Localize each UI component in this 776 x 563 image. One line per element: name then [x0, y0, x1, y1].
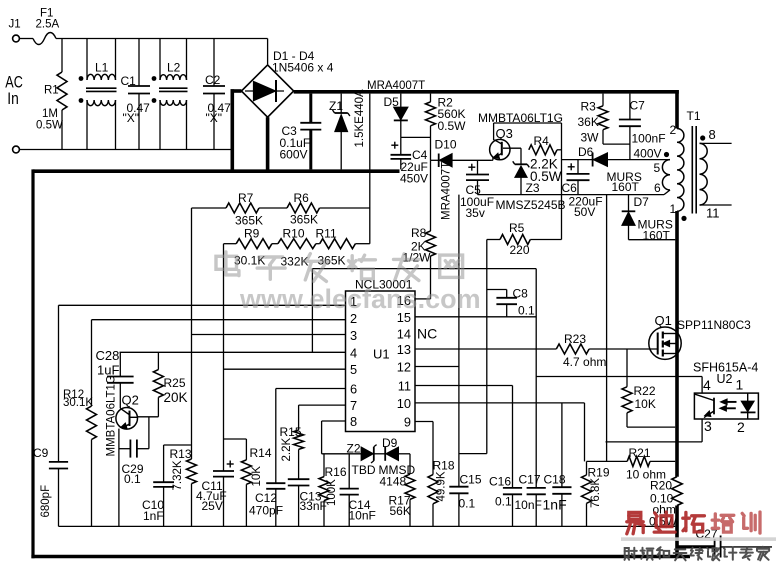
svg-text:In: In	[7, 90, 18, 108]
svg-text:5: 5	[654, 161, 661, 175]
svg-text:NC: NC	[417, 326, 437, 342]
svg-text:2: 2	[737, 419, 745, 435]
svg-text:4.7 ohm: 4.7 ohm	[563, 355, 606, 369]
resistor R5	[487, 239, 500, 241]
wire R2 down to R8	[430, 160, 432, 231]
svg-text:4148: 4148	[380, 475, 407, 489]
inductor L2 common-mode choke	[160, 75, 187, 80]
wire R5 left drop to C8 and C15	[486, 240, 488, 454]
svg-text:8: 8	[350, 414, 357, 429]
svg-text:1/2W: 1/2W	[403, 251, 432, 265]
capacitor C11 electrolytic	[223, 244, 225, 471]
resistor R11	[316, 243, 320, 245]
resistor R25	[157, 352, 159, 369]
transformer T1 secondary winding	[700, 143, 708, 205]
svg-text:36K: 36K	[578, 115, 599, 129]
svg-text:C1: C1	[121, 74, 137, 88]
svg-text:1nF: 1nF	[143, 509, 164, 523]
resistor R21	[587, 460, 628, 462]
svg-text:6: 6	[654, 181, 661, 195]
transistor Q3 MMBTA06LT1G	[490, 139, 510, 159]
svg-text:3W: 3W	[581, 131, 600, 145]
capacitor C3	[309, 94, 312, 123]
wire pin 10 drop to R21	[584, 403, 586, 462]
resistor R2	[430, 94, 432, 102]
wire divider feed from B+	[369, 94, 371, 244]
svg-text:30.1K: 30.1K	[63, 397, 93, 409]
resistor R12	[91, 320, 93, 406]
resistor R6	[259, 207, 287, 209]
svg-text:365K: 365K	[290, 213, 318, 227]
wire pin 1 net	[59, 304, 346, 306]
svg-text:2.5A: 2.5A	[36, 19, 60, 31]
wire secondary pin 11 output	[700, 204, 732, 206]
capacitor C6 electrolytic	[577, 160, 579, 174]
svg-text:C17: C17	[519, 473, 541, 487]
svg-text:0.1: 0.1	[495, 495, 512, 509]
resistor R22	[626, 349, 628, 387]
wire Q2 collector to R25	[138, 416, 159, 418]
svg-text:Z2: Z2	[347, 442, 361, 456]
wire bottom AC rail	[19, 149, 230, 151]
wire Q3 collector top	[494, 122, 562, 124]
svg-text:C6: C6	[562, 181, 578, 195]
svg-text:7.32K: 7.32K	[172, 460, 184, 490]
watermark red text	[621, 537, 776, 541]
svg-text:C9: C9	[33, 446, 49, 460]
resistor R7	[192, 207, 227, 209]
wire bridge bottom corner to negative rail (thick)	[266, 117, 270, 171]
svg-text:U1: U1	[373, 347, 390, 362]
svg-text:10nF: 10nF	[515, 498, 542, 512]
resistor R19	[586, 461, 588, 475]
wire B+ bus MRA4007T (thick)	[294, 90, 679, 94]
svg-text:MRA4007T: MRA4007T	[367, 80, 425, 92]
svg-text:9: 9	[404, 415, 411, 430]
svg-text:R15: R15	[280, 425, 302, 439]
resistor R16	[323, 454, 325, 477]
svg-text:20K: 20K	[164, 390, 188, 405]
svg-text:0.1: 0.1	[124, 472, 141, 486]
transformer T1 core	[691, 126, 693, 214]
svg-text:600V: 600V	[280, 148, 308, 162]
svg-text:365K: 365K	[235, 214, 263, 228]
wire U2 pin 3 to CS bus	[701, 419, 703, 442]
svg-text:R21: R21	[629, 446, 651, 460]
capacitor C5 electrolytic	[477, 160, 479, 174]
svg-text:11: 11	[706, 206, 720, 221]
svg-text:"X": "X"	[123, 111, 140, 125]
svg-text:470pF: 470pF	[249, 504, 283, 518]
svg-text:76.8K: 76.8K	[590, 478, 602, 508]
svg-text:0.5W: 0.5W	[36, 120, 63, 132]
resistor R17	[409, 454, 411, 474]
wire top AC rail	[19, 38, 33, 40]
capacitor C2	[213, 39, 215, 87]
svg-text:MMSZ5245B: MMSZ5245B	[496, 198, 566, 212]
TVS Z1 1.5KE440A	[340, 94, 342, 113]
svg-text:Q3: Q3	[496, 126, 513, 141]
transformer T1 tap arcs pins 5 6	[662, 160, 670, 190]
wire feedback drop to optocoupler	[535, 269, 537, 488]
svg-text:8: 8	[709, 127, 716, 142]
capacitor C14	[348, 454, 350, 489]
svg-text:R10: R10	[283, 227, 305, 241]
wire R8 to pin 16	[415, 298, 431, 300]
wire pin 4 feedback riser	[311, 269, 313, 353]
svg-text:Z1: Z1	[329, 99, 343, 113]
wire pin 12 net	[415, 366, 459, 368]
resistor R10	[272, 243, 278, 245]
wire feedback top run	[312, 268, 536, 270]
capacitor C13	[288, 478, 310, 480]
diode D9 MMSD4148	[374, 453, 385, 455]
wire drain line (thick)	[675, 211, 679, 477]
resistor R1	[61, 39, 63, 73]
inductor L1 common-mode choke	[87, 74, 116, 80]
phase dot pin 5	[664, 152, 669, 157]
svg-text:R1: R1	[44, 85, 59, 97]
wire AC to bridge top corner	[267, 39, 269, 65]
transistor Q2 MMBTA06LT1G	[116, 408, 138, 430]
svg-text:R18: R18	[433, 459, 455, 473]
wire pin 11 net	[415, 385, 513, 387]
svg-text:400V: 400V	[634, 147, 662, 161]
svg-text:L2: L2	[167, 61, 181, 75]
wire secondary pin 8 output	[700, 142, 732, 144]
wire pin 4 net	[120, 351, 346, 353]
wire D5 to R2 junction	[401, 136, 431, 138]
svg-text:680pF: 680pF	[40, 485, 52, 518]
svg-text:14: 14	[397, 327, 411, 342]
resistor R15	[298, 405, 300, 430]
svg-text:220: 220	[510, 243, 530, 257]
optocoupler U2 light arrows	[726, 401, 737, 403]
wire pin 3 net	[192, 334, 346, 336]
resistor R13	[191, 208, 193, 459]
svg-text:"X": "X"	[206, 111, 223, 125]
zener Z3 MMSZ5245B	[520, 148, 522, 164]
svg-text:35v: 35v	[466, 206, 485, 220]
svg-text:J1: J1	[9, 19, 21, 31]
svg-text:L1: L1	[95, 61, 109, 75]
svg-text:R14: R14	[250, 446, 272, 460]
svg-text:D6: D6	[578, 145, 594, 159]
capacitor C10	[164, 444, 191, 446]
svg-text:33nF: 33nF	[300, 499, 327, 513]
svg-text:R16: R16	[325, 465, 347, 479]
svg-text:C2: C2	[205, 73, 221, 87]
svg-text:11: 11	[398, 379, 411, 394]
resistor R18	[432, 422, 434, 475]
svg-text:C18: C18	[544, 473, 566, 487]
svg-text:160T: 160T	[643, 229, 671, 243]
wire B+ corner down to transformer pin 2 (thick)	[675, 90, 679, 129]
capacitor C29	[119, 448, 130, 450]
svg-text:0.1: 0.1	[459, 497, 476, 511]
IC U1 NCL30001 body	[346, 291, 416, 432]
svg-text:R8: R8	[411, 226, 427, 240]
transformer T1 primary winding	[677, 129, 684, 212]
connector J1 terminal top	[13, 35, 20, 42]
capacitor C8	[487, 289, 507, 291]
wire pin 8 net	[322, 420, 346, 422]
svg-text:2.2K: 2.2K	[281, 438, 293, 462]
svg-text:D9: D9	[382, 436, 398, 450]
svg-text:R22: R22	[634, 384, 656, 398]
diode D7 MURS160T	[628, 195, 630, 211]
svg-text:D5: D5	[384, 95, 400, 109]
svg-text:1.5KE440A: 1.5KE440A	[354, 89, 366, 148]
svg-text:Q2: Q2	[122, 393, 139, 408]
capacitor C1	[138, 39, 140, 87]
bridge rectifier D1 - D4	[241, 65, 293, 117]
svg-text:C28: C28	[96, 348, 120, 363]
MOSFET Q1 SPP11N80C3	[649, 327, 681, 359]
diode D10	[431, 159, 439, 161]
svg-text:7: 7	[350, 398, 357, 413]
svg-text:R25: R25	[164, 376, 186, 390]
wire pin 6 net	[276, 388, 346, 390]
svg-text:0.5W: 0.5W	[530, 169, 562, 184]
svg-text:1: 1	[736, 377, 744, 393]
svg-text:T1: T1	[687, 109, 701, 123]
resistor R14	[224, 438, 247, 440]
svg-text:Q1: Q1	[655, 313, 672, 328]
svg-text:49.9K: 49.9K	[436, 471, 448, 501]
svg-text:C7: C7	[630, 99, 646, 113]
wire pin 5 net	[224, 368, 346, 370]
svg-text:R7: R7	[238, 191, 254, 205]
svg-text:R13: R13	[170, 447, 192, 461]
wire pin 10 net	[415, 402, 585, 404]
svg-text:100K: 100K	[326, 479, 338, 506]
svg-text:R11: R11	[316, 227, 337, 241]
svg-text:R20: R20	[650, 479, 672, 493]
svg-text:13: 13	[397, 342, 411, 357]
wire bridge left corner to negative rail (thick)	[231, 89, 242, 93]
svg-text:R9: R9	[244, 227, 260, 241]
wire pin 8 drop	[321, 421, 323, 454]
capacitor C15	[458, 195, 460, 487]
svg-text:R19: R19	[588, 466, 610, 480]
svg-text:MMBTA06LT1G: MMBTA06LT1G	[106, 375, 118, 456]
wire aux tap to CS network	[664, 190, 670, 195]
wire R4 right vertical	[561, 123, 563, 240]
svg-text:25V: 25V	[202, 499, 223, 513]
svg-text:450V: 450V	[400, 172, 428, 186]
capacitor C12	[275, 389, 277, 484]
capacitor C18	[561, 403, 563, 487]
svg-text:D7: D7	[634, 195, 650, 209]
diode D6 MURS160T	[562, 159, 593, 161]
svg-text:160T: 160T	[612, 180, 640, 194]
svg-text:D10: D10	[435, 138, 457, 152]
svg-text:R6: R6	[294, 191, 310, 205]
svg-text:10: 10	[397, 396, 411, 411]
capacitor C28	[119, 352, 121, 376]
wire feedback to optocoupler pin 4	[536, 376, 702, 378]
phase dot pin 1	[681, 216, 686, 221]
svg-text:SPP11N80C3: SPP11N80C3	[677, 318, 751, 332]
wire bottom border (thick)	[31, 555, 690, 559]
svg-text:6: 6	[350, 382, 357, 397]
wire pin 7 net	[299, 404, 346, 406]
watermark elecfans text	[216, 252, 463, 281]
wire pin 9 net	[415, 421, 433, 423]
svg-text:0.1: 0.1	[518, 304, 535, 318]
resistor R23	[556, 344, 589, 354]
wire left border down (thick)	[31, 169, 34, 558]
svg-text:MRA4007T: MRA4007T	[441, 162, 453, 220]
wire source return (thick)	[675, 506, 679, 559]
optocoupler U2 phototransistor	[713, 398, 715, 415]
svg-text:56K: 56K	[390, 504, 411, 518]
svg-text:C8: C8	[513, 287, 529, 301]
fuse F1	[33, 33, 56, 45]
wire pin 15 net	[415, 316, 536, 318]
svg-text:4: 4	[350, 345, 357, 360]
svg-text:TBD: TBD	[352, 463, 376, 477]
resistor R8	[426, 231, 436, 256]
capacitor C27	[677, 545, 715, 548]
resistor R4	[529, 145, 557, 155]
svg-text:10K: 10K	[251, 466, 263, 487]
capacitor C9	[58, 305, 60, 462]
wire primary ground bus (thick)	[33, 169, 400, 173]
wire Z2 D9 row	[322, 453, 362, 455]
svg-text:2: 2	[670, 123, 677, 137]
svg-text:1nF: 1nF	[543, 497, 567, 513]
wire pin 2 net	[92, 319, 346, 321]
svg-text:C16: C16	[489, 475, 511, 489]
optocoupler U2 SFH615A-4	[694, 393, 758, 419]
wire ground return rail	[59, 525, 676, 527]
svg-text:10nF: 10nF	[349, 509, 376, 523]
optocoupler U2 LED	[747, 393, 749, 401]
svg-text:12: 12	[397, 360, 411, 375]
svg-text:1M: 1M	[42, 108, 58, 120]
svg-text:0.5W: 0.5W	[438, 119, 467, 133]
svg-text:5: 5	[350, 362, 357, 377]
svg-text:1N5406 x 4: 1N5406 x 4	[272, 61, 334, 75]
svg-text:100nF: 100nF	[632, 132, 666, 146]
capacitor C4 electrolytic	[400, 137, 402, 154]
wire common emitter bottom	[478, 194, 665, 196]
svg-text:3: 3	[350, 328, 357, 343]
resistor R3	[602, 94, 604, 106]
wire pin 13 net to R23	[415, 348, 556, 350]
connector J1 terminal bottom	[13, 146, 20, 153]
svg-text:AC: AC	[5, 74, 23, 92]
svg-text:10K: 10K	[635, 397, 656, 411]
wire U2 pin 4 stub	[701, 377, 703, 394]
capacitor C16	[512, 386, 514, 488]
svg-text:C15: C15	[460, 473, 482, 487]
zener Z2 TBD	[361, 447, 373, 460]
resistor R20 sense	[672, 477, 682, 506]
svg-text:R5: R5	[509, 221, 525, 235]
diode D5	[400, 94, 402, 108]
capacitor C17	[527, 487, 546, 489]
phase dot pin 8	[700, 135, 705, 140]
svg-text:R4: R4	[534, 134, 550, 148]
svg-text:4: 4	[703, 377, 711, 393]
svg-text:3: 3	[704, 418, 712, 434]
svg-text:R3: R3	[581, 100, 597, 114]
svg-text:R23: R23	[564, 332, 586, 346]
svg-text:U2: U2	[717, 372, 733, 386]
resistor R9	[224, 243, 237, 245]
svg-text:www.elecfans.com: www.elecfans.com	[239, 284, 481, 314]
capacitor C7	[629, 94, 631, 120]
svg-text:50V: 50V	[574, 205, 595, 219]
